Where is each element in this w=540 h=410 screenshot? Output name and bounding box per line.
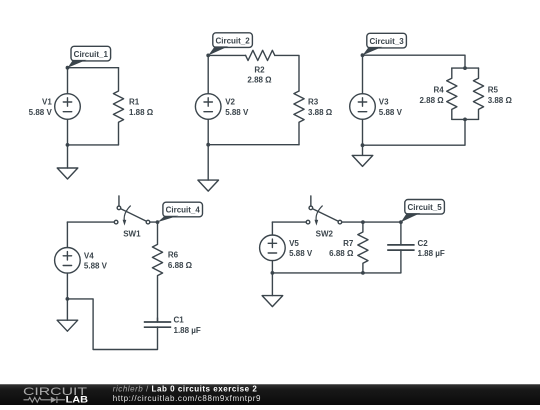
- svg-text:V3: V3: [379, 98, 389, 107]
- wire: [207, 119, 209, 144]
- node J: [271, 271, 275, 275]
- svg-text:2.88 Ω: 2.88 Ω: [247, 76, 272, 85]
- svg-text:Circuit_4: Circuit_4: [166, 206, 201, 215]
- node I: [361, 271, 365, 275]
- wire: [362, 145, 364, 155]
- node C: [463, 66, 467, 70]
- resistor R4: [447, 68, 457, 119]
- wire: [66, 299, 68, 320]
- wire: [67, 221, 114, 223]
- svg-text:V1: V1: [42, 98, 52, 107]
- ground: [352, 155, 373, 166]
- svg-text:SW2: SW2: [316, 229, 334, 238]
- voltage source V1 5.88 V: [55, 94, 81, 120]
- svg-text:1.88 µF: 1.88 µF: [418, 249, 445, 258]
- label flag Circuit_5: [401, 200, 445, 223]
- svg-text:V2: V2: [225, 98, 235, 107]
- wire: [452, 118, 479, 120]
- node E: [156, 220, 160, 224]
- wire: [67, 68, 69, 94]
- wire: [362, 55, 364, 93]
- wire: [363, 55, 466, 68]
- svg-text:R1: R1: [129, 98, 140, 107]
- node A2: [66, 143, 70, 147]
- node D2: [361, 143, 365, 147]
- wire: [207, 145, 209, 180]
- wire: [68, 144, 119, 146]
- svg-text:R4: R4: [433, 86, 444, 95]
- svg-text:V4: V4: [84, 251, 94, 260]
- svg-text:2.88 Ω: 2.88 Ω: [419, 96, 444, 105]
- svg-text:R3: R3: [308, 98, 319, 107]
- svg-text:5.88 V: 5.88 V: [84, 262, 108, 271]
- svg-text:SW1: SW1: [123, 229, 141, 238]
- svg-text:R2: R2: [254, 66, 265, 75]
- svg-text:5.88 V: 5.88 V: [225, 108, 249, 117]
- wire: [66, 222, 68, 247]
- label flag Circuit_2: [208, 33, 252, 56]
- wire: [271, 222, 273, 235]
- svg-text:R6: R6: [168, 251, 179, 260]
- wire: [68, 67, 119, 69]
- voltage source V2 5.88 V: [195, 94, 221, 120]
- svg-text:richlerb / Lab 0 circuits exer: richlerb / Lab 0 circuits exercise 2: [113, 384, 258, 393]
- voltage source V4 5.88 V: [55, 247, 81, 273]
- svg-text:1.88 Ω: 1.88 Ω: [129, 108, 154, 117]
- resistor R2: [246, 50, 275, 60]
- ground: [57, 168, 78, 179]
- svg-text:3.88 Ω: 3.88 Ω: [308, 108, 333, 117]
- resistor R5: [473, 68, 483, 119]
- ground: [262, 296, 283, 307]
- switch SW2: [306, 196, 342, 226]
- capacitor C1 1.88 &#181;F: [144, 322, 171, 327]
- wire: [271, 261, 273, 273]
- wire: [67, 299, 157, 350]
- wire: [342, 221, 401, 223]
- wire: [157, 318, 159, 322]
- svg-text:Circuit_5: Circuit_5: [407, 203, 442, 212]
- svg-text:6.88 Ω: 6.88 Ω: [168, 261, 193, 270]
- svg-text:C2: C2: [418, 239, 429, 248]
- resistor R7: [358, 222, 368, 273]
- node A: [66, 66, 70, 70]
- node B: [206, 54, 210, 58]
- svg-text:6.88 Ω: 6.88 Ω: [329, 249, 354, 258]
- node F: [66, 297, 70, 301]
- svg-text:1.88 µF: 1.88 µF: [174, 326, 201, 335]
- wire: [272, 221, 306, 223]
- svg-text:5.88 V: 5.88 V: [379, 108, 403, 117]
- wire: [66, 273, 68, 299]
- wire: [400, 222, 402, 245]
- voltage source V3 5.88 V: [350, 94, 376, 120]
- svg-text:Circuit_3: Circuit_3: [369, 37, 404, 46]
- node G: [361, 220, 365, 224]
- wire: [208, 144, 299, 146]
- node D: [361, 53, 365, 57]
- label flag Circuit_1: [68, 46, 111, 67]
- wire: [363, 119, 466, 145]
- svg-text:LAB: LAB: [66, 394, 89, 404]
- wire: [271, 273, 273, 296]
- wire: [275, 55, 299, 91]
- svg-text:Circuit_2: Circuit_2: [215, 36, 250, 45]
- ground: [57, 320, 78, 331]
- switch SW1: [114, 196, 150, 226]
- svg-text:R5: R5: [488, 86, 499, 95]
- wire: [452, 67, 479, 69]
- wire: [272, 272, 401, 274]
- svg-text:5.88 V: 5.88 V: [289, 249, 313, 258]
- node C2: [463, 118, 467, 122]
- capacitor C2 1.88 &#181;F: [387, 245, 414, 250]
- wire: [67, 145, 69, 168]
- resistor R6: [152, 222, 162, 322]
- svg-text:V5: V5: [289, 239, 299, 248]
- svg-text:Circuit_1: Circuit_1: [74, 50, 109, 59]
- resistor R3: [294, 91, 304, 145]
- node B2: [206, 143, 210, 147]
- wire: [362, 119, 364, 145]
- wire: [208, 54, 245, 56]
- ground: [198, 180, 219, 191]
- wire: [207, 55, 209, 93]
- resistor R1: [113, 68, 123, 145]
- label flag Circuit_3: [363, 33, 407, 55]
- node H: [399, 220, 403, 224]
- wire: [400, 250, 402, 273]
- voltage source V5 5.88 V: [260, 235, 286, 261]
- svg-text:3.88 Ω: 3.88 Ω: [488, 96, 513, 105]
- svg-text:R7: R7: [343, 239, 354, 248]
- wire: [67, 119, 69, 145]
- logo resistor-diode squiggle: [24, 397, 66, 403]
- label flag Circuit_4: [158, 202, 203, 222]
- svg-text:C1: C1: [174, 316, 185, 325]
- svg-text:http://circuitlab.com/c88m9xfm: http://circuitlab.com/c88m9xfmntpr9: [113, 394, 261, 403]
- wire: [150, 221, 158, 223]
- svg-text:5.88 V: 5.88 V: [29, 108, 53, 117]
